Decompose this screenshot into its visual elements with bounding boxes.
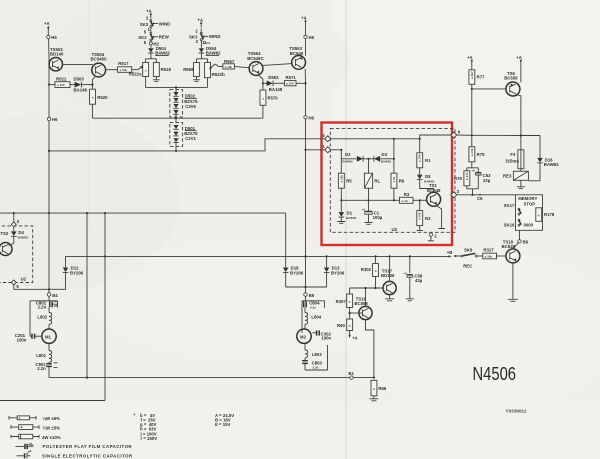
legend electrolytic capacitor [17,450,133,459]
diode D4 BAW62 [11,227,28,244]
svg-text:BAW62: BAW62 [18,235,29,239]
svg-text:a 10k: a 10k [225,65,233,69]
resistor R60 [337,319,358,341]
svg-text:R3: R3 [404,192,410,197]
transistor TS6 BC558 [504,71,520,96]
svg-text:R570: R570 [267,95,278,100]
wire TS553 collector down to H6 [304,69,306,116]
svg-text:R567: R567 [224,59,235,64]
svg-text:0000: 0000 [524,223,534,228]
resistor R317 [483,247,506,258]
svg-text:D4: D4 [18,230,24,235]
svg-text:4W ±10%: 4W ±10% [42,435,61,440]
svg-text:BAW62: BAW62 [381,159,392,163]
node 5 (left U2) [11,280,49,289]
svg-text:BC548C: BC548C [247,56,263,61]
legend voltage codes [134,413,158,441]
supply +A (top left) [44,21,50,33]
svg-text:b: b [372,388,376,390]
resistor R567 [209,59,249,70]
svg-text:R76: R76 [454,176,462,181]
resistor R571 [285,75,307,86]
wire rail to D18 [285,213,287,267]
svg-text:BY206: BY206 [290,270,304,275]
svg-text:b: b [374,270,378,272]
ground under R518 [153,77,160,82]
legend polyester capacitor [15,443,132,449]
svg-text:D1: D1 [347,211,353,216]
svg-text:a 10k: a 10k [120,68,128,72]
switch SK2 (REW) [138,28,169,45]
wire vertical x87 [86,213,88,378]
svg-text:R302: R302 [361,267,372,272]
resistor R3 [400,192,427,203]
transistor TS18 BC548 [502,239,520,263]
svg-text:H5: H5 [51,35,57,40]
svg-text:BAW62: BAW62 [155,51,170,56]
svg-text:R178: R178 [544,212,555,217]
connector B4 [47,293,58,298]
supply +A (SK3 left) [146,9,152,19]
legend resistor 4W [11,434,61,440]
svg-text:REC: REC [463,263,472,268]
node 3 (left U2) [11,213,19,227]
svg-text:L804: L804 [311,314,321,319]
wire long rail y213 [0,212,286,214]
svg-text:TS2: TS2 [0,231,8,236]
diode D1 BAW62 [337,200,356,223]
svg-text:RL: RL [374,179,380,184]
capacitor C58 43u [403,256,423,300]
wire TS16 collector up [365,288,367,306]
svg-text:BD136: BD136 [381,273,395,278]
capacitor C801 [35,362,57,378]
svg-text:E = 15V: E = 15V [215,422,231,427]
supply +A (TS6) [516,55,522,82]
svg-text:a 10k: a 10k [418,154,422,162]
svg-text:+A: +A [198,18,204,23]
svg-text:R571: R571 [286,75,297,80]
svg-text:315mA: 315mA [505,158,519,163]
IC U2 left part dashed outline [0,226,33,283]
svg-text:D501: D501 [185,126,196,131]
svg-text:H6: H6 [52,117,58,122]
node C6 [477,194,483,201]
svg-text:a 10k: a 10k [485,255,493,259]
resistor R302 [361,256,379,288]
wire resistor bottoms to zener bus [146,86,208,88]
resistor R77 [469,70,485,136]
resistor R79 [469,136,485,168]
svg-text:BC548C: BC548C [91,57,107,62]
svg-text:H1: H1 [206,41,210,45]
svg-text:SK17: SK17 [504,203,515,208]
svg-text:r = 250V: r = 250V [141,436,158,441]
resistor R518 [153,63,171,77]
diode D553 BA148 [263,75,285,92]
resistor R570 [260,83,278,118]
zener D502 BZX75 C3V6 [170,87,198,122]
connector H5 right [304,26,315,56]
wire node1 feed [306,149,326,151]
zener D501 BZX75 C2V1 [170,123,198,151]
resistor R178 [536,208,555,222]
svg-text:POLYESTER FLAT FILM CAPACIT: POLYESTER FLAT FILM CAPACITOR [43,444,133,449]
svg-text:BD140: BD140 [50,52,64,57]
svg-text:+A: +A [44,21,50,26]
resistor R521 [49,77,75,88]
wire TS16 emitter to R56 rail [366,320,374,378]
svg-text:MEMORY: MEMORY [518,196,537,201]
supply +A (R77) [467,55,473,70]
svg-text:R568: R568 [183,67,194,72]
wire TS16/TS17 base rail [350,287,384,289]
svg-text:D2: D2 [345,152,351,157]
potentiometer R522b [205,63,225,88]
svg-text:R77: R77 [477,75,485,80]
resistor R2 [417,199,432,230]
node 3 [451,189,460,198]
motor M1 suppression network [15,296,58,343]
svg-text:a 100: a 100 [57,83,65,87]
wire D2/D3 junction to RL [368,159,370,173]
wire node1 to R5/D2 [331,150,357,173]
wire bottom rail y118 [92,117,263,119]
inductor L801 [36,343,51,362]
wire R77 to TS6 base [472,88,506,90]
connector B5 [304,293,315,298]
motor M2 suppression network [297,296,332,343]
svg-text:a 1k: a 1k [402,199,408,203]
svg-text:L802: L802 [37,314,47,319]
relay RE3 [503,169,528,189]
svg-text:a 10k: a 10k [418,212,422,220]
svg-text:BC558: BC558 [354,301,368,306]
svg-text:R6: R6 [399,179,405,184]
transistor TS2 [0,231,14,256]
svg-text:B1: B1 [348,371,354,376]
connector H6 left [47,117,58,122]
wire H6 left vertical down to B4 [48,121,50,293]
svg-text:+b: +b [472,169,476,173]
svg-text:REW: REW [159,35,170,40]
svg-text:43µ: 43µ [415,278,423,283]
svg-text:RE3: RE3 [503,174,512,179]
resistor R520 [90,89,109,118]
transistor TS1 BC548 [427,183,441,206]
svg-text:R307: R307 [336,299,347,304]
transistor TS554 BC548C [247,51,263,75]
diode D3 BAW62 [369,152,394,164]
resistor R1 [417,139,431,175]
fuse F3 315mA [505,136,524,169]
svg-text:SK16: SK16 [504,222,515,227]
svg-text:C6: C6 [477,196,483,201]
diode D16 BAW62 [528,136,559,181]
svg-text:BA148: BA148 [269,87,283,92]
svg-text:2.2n: 2.2n [38,305,47,310]
svg-text:BY206: BY206 [331,270,345,275]
svg-text:+g: +g [403,271,407,275]
resistor R5 [338,173,352,200]
diode D18 BY206 [283,266,304,287]
svg-text:100µ: 100µ [373,215,383,220]
diode D504 BAW62 [148,45,170,59]
svg-text:WIND: WIND [209,34,220,39]
svg-text:100n: 100n [17,337,27,342]
wire TS17 emitter ground [385,295,394,301]
svg-text:D3: D3 [382,152,388,157]
svg-text:L803: L803 [312,352,322,357]
svg-text:Y0339012: Y0339012 [506,409,527,415]
svg-text:U2: U2 [392,227,398,232]
node 4 [322,133,331,142]
svg-text:U2: U2 [21,277,27,282]
wire node3 bus [457,194,516,196]
U2 IC dashed outline [330,128,455,232]
wire +A to H6 [47,33,50,118]
supply +A (TS553) [301,16,307,27]
svg-text:C2V1: C2V1 [185,136,196,141]
svg-text:a 22k: a 22k [339,175,343,183]
connector H2 [149,41,159,46]
capacitor C1 100u [362,200,383,224]
wire node6 bus right [457,134,540,137]
wire TS17 collector to bus [389,256,391,281]
svg-text:R5: R5 [346,179,352,184]
svg-text:a 4k7: a 4k7 [470,71,474,79]
svg-text:BAW62: BAW62 [206,51,221,56]
svg-text:L801: L801 [36,353,46,358]
svg-text:a 1k: a 1k [392,176,396,182]
relay coil RL [364,173,380,200]
svg-text:R1: R1 [425,158,431,163]
wire TS18 emitter to ground [508,263,518,301]
inductor L803 [305,343,322,357]
svg-text:R522a: R522a [129,72,142,77]
switch SK3 (WIND) left [140,16,170,33]
diode D503 BA148 [74,77,94,93]
wire TS1 emitter [436,206,445,229]
wire R6 to node4 rail [393,139,395,173]
diode D2 BAW62 [342,152,368,164]
connector H6 right [304,116,315,121]
legend resistor 1/8W [9,416,60,421]
svg-text:2.2n: 2.2n [312,365,318,369]
svg-text:B5: B5 [309,293,315,298]
svg-text:BAW62: BAW62 [544,162,559,167]
wire resistor-pair top bar (right) [196,59,207,63]
wire TS504 emitter [92,76,96,89]
svg-text:STOP: STOP [524,201,536,206]
svg-text:R56: R56 [378,386,386,391]
transistor TS16 BC558 [350,296,373,319]
svg-text:BY206: BY206 [70,270,84,275]
svg-text:D503: D503 [74,77,85,82]
wire TS503 base to TS504 [63,63,94,65]
svg-text:2.2n: 2.2n [37,366,46,371]
memory stop unit SK17/SK16 [504,195,543,231]
svg-text:BAW62: BAW62 [346,216,357,220]
svg-text:¼W ±5%: ¼W ±5% [43,426,61,431]
svg-text:R79: R79 [477,152,485,157]
svg-text:BAW62: BAW62 [342,159,353,163]
svg-text:SK9: SK9 [464,247,473,252]
wire motor return rail y377 [49,377,374,379]
wire TS6 collector down [516,95,521,136]
wire diode join y287 [286,287,327,293]
supply +A (SK3 right) [198,18,204,28]
svg-text:C3V6: C3V6 [185,104,196,109]
junction zener chain [175,150,177,152]
wire TS554 emitter [258,75,263,83]
svg-text:R520: R520 [97,95,108,100]
svg-text:F3: F3 [510,152,516,157]
junction [48,84,50,86]
svg-text:N4506: N4506 [473,364,517,384]
svg-text:b: b [348,325,352,327]
wire resistor-pair top bar (left) [146,59,157,63]
resistor R56 [369,380,386,401]
diode D13 BY206 [324,256,345,287]
legend resistor 1/4W [11,425,60,431]
transistor TS504 BC548C [91,52,107,77]
wire node4 rail [331,138,420,140]
wire main bus y256 [66,255,449,257]
switch SK3 (WIND) right [189,29,220,46]
connector H5 [47,35,58,40]
svg-text:R60: R60 [337,323,345,328]
svg-text:R522b: R522b [212,72,225,77]
svg-text:R518: R518 [161,67,172,72]
svg-text:+A: +A [301,16,307,21]
bus end arrow +B [449,255,452,257]
node 1 [322,144,331,153]
highlight red rectangle [322,123,453,246]
svg-text:100n: 100n [321,336,331,341]
svg-text:D502: D502 [185,94,196,99]
svg-text:B6: B6 [523,240,529,245]
transistor TS17 BD136 [381,269,396,295]
resistor R568 [183,63,199,77]
svg-text:M2: M2 [300,334,307,339]
svg-text:⅛W ±5%: ⅛W ±5% [43,416,61,421]
legend supply codes [215,413,234,427]
transistor TS503 BD140 [49,47,64,71]
diode D5 BAW62 [417,174,435,192]
svg-text:22µ: 22µ [483,178,491,183]
svg-text:D5: D5 [425,174,431,179]
svg-text:2.2n: 2.2n [310,305,316,309]
svg-text:R2: R2 [425,216,431,221]
svg-text:H6: H6 [309,116,315,121]
wire node6 jog to R1 rail [420,135,451,139]
svg-text:BA148: BA148 [74,87,88,92]
wire TS554 collector to TS553 base [263,64,292,66]
transistor TS553 BC549 [289,46,305,69]
svg-text:b: b [348,301,352,303]
connector B1 [348,371,354,379]
svg-text:BC558: BC558 [504,76,518,81]
capacitor C803 [302,345,327,370]
svg-text:B4: B4 [52,293,58,298]
svg-text:R517: R517 [118,61,129,66]
svg-text:M1: M1 [45,334,52,339]
potentiometer R522a [129,63,149,88]
resistor R76 with capacitor C53 parallel [454,168,491,195]
diode D554 BAW62 [199,41,221,59]
switch SK9 REC [447,247,483,268]
svg-text:R521: R521 [56,77,67,82]
svg-text:SINGLE ELECTROLYTIC CAPACITO: SINGLE ELECTROLYTIC CAPACITOR [42,454,133,459]
node 6 [451,130,461,138]
wire H6 right vertical down [305,119,307,287]
svg-text:b: b [537,214,541,216]
wire node feed y151 [49,139,325,151]
ground under R568 [193,77,200,82]
node 2 pin [428,232,437,241]
svg-text:b 47k: b 47k [465,172,469,180]
svg-text:+A: +A [352,336,358,341]
wire vertical x105 [0,213,105,400]
resistor R307 [336,288,353,319]
svg-text:a 100: a 100 [286,82,294,86]
svg-text:R317: R317 [483,247,494,252]
diode D12 BY206 [49,256,84,289]
svg-text:H5: H5 [309,35,315,40]
svg-text:WIND: WIND [159,21,170,26]
resistor R6 [391,173,405,200]
wire base rail y200 [341,199,399,201]
svg-text:+B: +B [447,250,453,255]
svg-text:D553: D553 [268,75,279,80]
resistor R517 [106,61,143,72]
connector B6 [514,230,529,248]
svg-text:a 10k: a 10k [470,148,474,156]
